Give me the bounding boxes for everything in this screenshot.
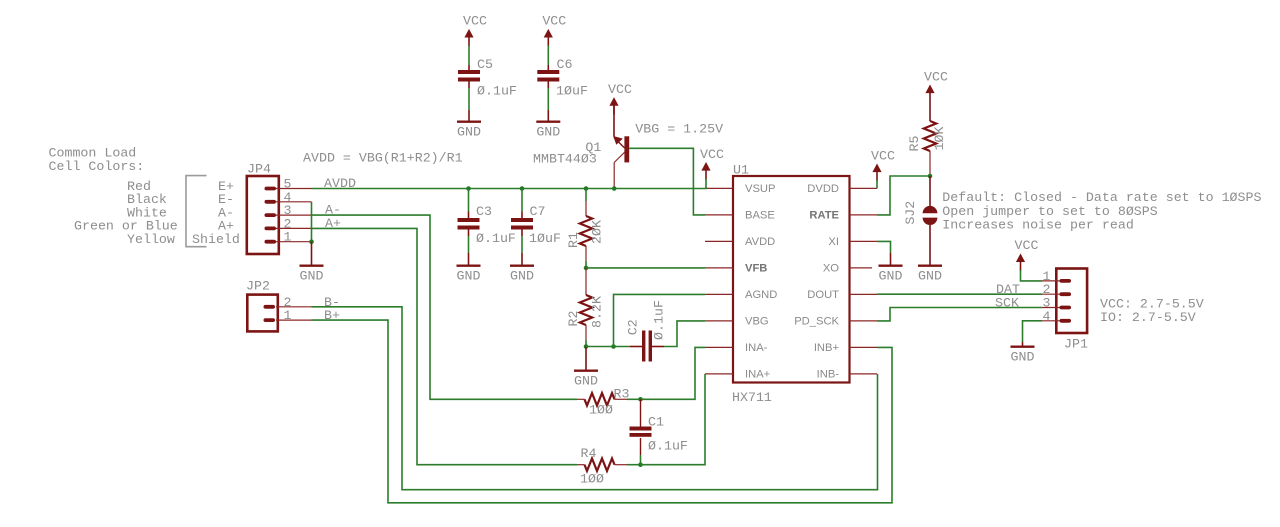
wire VCC to VSUP: [705, 179, 706, 189]
svg-text:R5: R5: [907, 136, 922, 152]
svg-text:PD_SCK: PD_SCK: [794, 316, 839, 328]
transistor Q1 MMBT4403 (PNP): [613, 105, 629, 187]
resistor R3: [577, 393, 641, 405]
power VCC above C5: [463, 14, 487, 47]
wire AVDD to C7: [521, 189, 523, 219]
svg-text:GND: GND: [1011, 350, 1035, 365]
svg-text:R2: R2: [566, 311, 581, 327]
svg-text:JP4: JP4: [247, 162, 271, 177]
svg-text:INA-: INA-: [745, 342, 768, 354]
capacitor C2: [630, 331, 664, 362]
svg-text:INB+: INB+: [814, 342, 839, 354]
svg-text:VBG: VBG: [745, 316, 769, 328]
svg-text:VCC: VCC: [871, 148, 895, 163]
svg-text:VCC: VCC: [463, 14, 487, 29]
capacitor C7: [511, 218, 533, 230]
wire R3 node to INA-: [641, 347, 706, 399]
svg-text:C5: C5: [477, 57, 493, 72]
wire AVDD net: [312, 188, 706, 190]
U1 right pin names: [794, 183, 839, 381]
label JP2: [246, 278, 270, 293]
bracket grouping load cell colors: [186, 176, 207, 247]
junction JP4 pin1 shield: [309, 239, 314, 244]
net label DAT: [996, 282, 1020, 297]
IC U1 HX711 box: [733, 176, 850, 383]
capacitor C5: [458, 70, 480, 82]
ground under SJ2: [918, 266, 942, 284]
svg-text:GND: GND: [300, 269, 324, 284]
svg-text:Ø.1uF: Ø.1uF: [477, 83, 517, 98]
ground under R2: [574, 347, 598, 389]
wire C2 to VBG: [664, 321, 705, 347]
svg-text:GND: GND: [879, 269, 903, 284]
U1 right pins: [850, 188, 878, 374]
ground under C7: [510, 266, 534, 284]
wire JP1 pin4 to GND: [1023, 321, 1043, 346]
wire C6 to GND: [547, 82, 549, 121]
note: VCC and IO voltage range: [1100, 296, 1204, 325]
power VCC above JP1 pin1: [1015, 238, 1039, 271]
svg-text:GND: GND: [574, 374, 598, 389]
svg-text:RATE: RATE: [809, 210, 839, 222]
net label AVDD: [324, 176, 356, 191]
wire B+ net to INB+: [312, 320, 893, 503]
svg-text:GND: GND: [536, 125, 560, 140]
svg-text:C6: C6: [557, 57, 573, 72]
value 0.1uF of C5: [477, 83, 517, 98]
wire E- to GND: [311, 202, 313, 242]
wire B- net to INB-: [312, 307, 878, 490]
svg-text:Shield: Shield: [192, 232, 240, 247]
JP1 pin numbers 1 2 3 4: [1043, 269, 1051, 324]
svg-text:VFB: VFB: [745, 263, 767, 275]
svg-text:VCC: VCC: [608, 82, 632, 97]
note: wire color list: [74, 179, 178, 247]
junction R2 bottom: [584, 344, 589, 349]
ground under C3: [457, 266, 481, 284]
wire AGND: [614, 294, 706, 346]
svg-text:BASE: BASE: [745, 210, 775, 222]
value 10uF of C6: [556, 83, 588, 98]
svg-text:2ØK: 2ØK: [589, 220, 604, 244]
svg-text:R3: R3: [614, 386, 630, 401]
svg-text:XO: XO: [823, 263, 839, 275]
wire VCC to C6: [547, 46, 549, 71]
svg-text:R4: R4: [581, 446, 597, 461]
svg-text:C3: C3: [476, 204, 492, 219]
junction AVDD/C3: [466, 186, 471, 191]
svg-text:DOUT: DOUT: [807, 289, 839, 301]
svg-text:MMBT44Ø3: MMBT44Ø3: [533, 152, 597, 167]
net label B-: [324, 295, 340, 310]
svg-text:AGND: AGND: [745, 289, 777, 301]
JP2 pin numbers 2 1: [284, 295, 292, 323]
net label A-: [325, 203, 341, 218]
power VCC above R5: [924, 69, 948, 102]
connector JP2: [247, 295, 311, 332]
svg-text:1ØuF: 1ØuF: [529, 231, 561, 246]
note: jumper default description: [942, 190, 1261, 232]
svg-text:IO: 2.7-5.5V: IO: 2.7-5.5V: [1100, 310, 1196, 325]
wire SCK (PD_SCK to JP1): [877, 308, 1042, 321]
ground under C6: [536, 122, 560, 140]
capacitor C6: [537, 70, 559, 82]
net label B+: [324, 308, 340, 323]
value 100 of R4: [580, 472, 604, 487]
svg-text:INB-: INB-: [817, 369, 840, 381]
svg-text:Ø.1uF: Ø.1uF: [652, 300, 667, 340]
ground under JP1: [1011, 347, 1035, 365]
resistor R2: [580, 268, 592, 347]
junction R5/RATE/SJ2: [928, 174, 933, 179]
svg-text:VCC: VCC: [924, 69, 948, 84]
svg-text:AVDD: AVDD: [324, 176, 356, 191]
label C6: [557, 57, 573, 72]
svg-text:VSUP: VSUP: [745, 183, 775, 195]
note: VBG = 1.25V: [635, 122, 723, 137]
svg-text:A+: A+: [325, 216, 341, 231]
wire DAT (DOUT to JP1): [877, 293, 1042, 295]
note: load cell signal names: [192, 179, 240, 247]
svg-text:GND: GND: [457, 269, 481, 284]
svg-text:AVDD: AVDD: [745, 236, 775, 248]
junction R3/C1/INA-: [638, 397, 643, 402]
solder jumper SJ2: [923, 176, 938, 265]
JP4 pin numbers 5 4 3 2 1: [284, 177, 292, 245]
svg-text:GND: GND: [918, 269, 942, 284]
svg-text:JP1: JP1: [1064, 336, 1088, 351]
ground under C5: [457, 122, 481, 140]
wire C5 to GND: [468, 82, 470, 121]
wire VCC to JP1 pin1: [1021, 270, 1043, 281]
svg-text:INA+: INA+: [745, 369, 770, 381]
svg-text:DVDD: DVDD: [807, 183, 839, 195]
svg-text:VBG = 1.25V: VBG = 1.25V: [635, 122, 723, 137]
junction AVDD/R1: [584, 186, 589, 191]
power VCC above U1 VSUP: [700, 147, 724, 180]
wire C3 to GND: [468, 230, 470, 265]
svg-text:U1: U1: [733, 163, 749, 178]
junction AVDD/C7: [520, 186, 525, 191]
junction AGND/C2: [611, 344, 616, 349]
svg-text:VCC: VCC: [700, 147, 724, 162]
value 100 of R3: [589, 402, 613, 417]
connector JP1: [1042, 269, 1087, 334]
label R3: [614, 386, 630, 401]
label C7: [530, 204, 546, 219]
connector JP4: [247, 176, 312, 254]
wire A+ net: [312, 228, 578, 464]
resistor R4: [577, 459, 641, 471]
U1 left pins: [705, 188, 733, 374]
value 0.1uF of C3: [476, 231, 516, 246]
wire R2 to C2: [586, 346, 630, 348]
label C1: [648, 414, 664, 429]
note: AVDD formula: [303, 151, 463, 166]
svg-text:HX711: HX711: [732, 390, 772, 405]
ground under XI: [879, 266, 903, 284]
capacitor C3: [458, 218, 480, 230]
note: Common Load Cell Colors heading: [49, 145, 145, 174]
svg-text:8.2K: 8.2K: [589, 296, 604, 328]
svg-text:GND: GND: [457, 125, 481, 140]
wire VCC to DVDD: [876, 180, 878, 188]
svg-text:1ØuF: 1ØuF: [556, 83, 588, 98]
svg-text:C2: C2: [625, 319, 640, 335]
resistor R1: [580, 189, 592, 268]
net label SCK: [995, 295, 1019, 310]
svg-text:SCK: SCK: [995, 295, 1019, 310]
svg-text:1ØK: 1ØK: [932, 127, 947, 151]
junction R4/C1/INA+: [638, 462, 643, 467]
svg-text:Yellow: Yellow: [127, 232, 175, 247]
label JP4: [247, 162, 271, 177]
U1 left pin names: [745, 183, 777, 381]
value 10uF of C7: [529, 231, 561, 246]
wire C7 to GND: [521, 230, 523, 265]
wire RATE to jumper: [877, 176, 930, 215]
svg-text:C7: C7: [530, 204, 546, 219]
wire Q1 base to U1 BASE: [629, 148, 705, 215]
svg-text:VCC: VCC: [1015, 238, 1039, 253]
svg-text:1: 1: [284, 230, 292, 245]
value HX711 of U1: [732, 390, 772, 405]
svg-text:4: 4: [1043, 309, 1051, 324]
svg-text:C1: C1: [648, 414, 664, 429]
label C5: [477, 57, 493, 72]
svg-text:VCC: VCC: [542, 14, 566, 29]
resistor R5: [924, 102, 936, 176]
svg-text:1: 1: [284, 308, 292, 323]
label JP1: [1064, 336, 1088, 351]
svg-text:XI: XI: [828, 236, 839, 248]
label R4: [581, 446, 597, 461]
junction R1/R2/VFB: [584, 266, 589, 271]
svg-text:GND: GND: [510, 269, 534, 284]
svg-text:Ø.1uF: Ø.1uF: [648, 439, 688, 454]
wire XI to GND: [877, 241, 891, 264]
junction Q1 collector on AVDD: [612, 186, 617, 191]
svg-text:Ø.1uF: Ø.1uF: [476, 231, 516, 246]
power VCC above Q1: [608, 82, 632, 115]
svg-text:1ØØ: 1ØØ: [580, 472, 604, 487]
svg-text:SJ2: SJ2: [903, 201, 918, 225]
net label A+: [325, 216, 341, 231]
wire VCC to C5: [468, 46, 470, 71]
power VCC above DVDD: [871, 148, 895, 181]
svg-text:R1: R1: [566, 232, 581, 248]
wire R4 node to INA+: [641, 374, 706, 465]
value MMBT4403 of Q1: [533, 152, 597, 167]
wire A- net: [312, 215, 578, 399]
label C3: [476, 204, 492, 219]
svg-text:JP2: JP2: [246, 278, 270, 293]
power VCC above C6: [542, 14, 566, 47]
svg-text:AVDD = VBG(R1+R2)/R1: AVDD = VBG(R1+R2)/R1: [303, 151, 463, 166]
svg-text:1ØØ: 1ØØ: [589, 402, 613, 417]
wire AVDD to C3: [468, 189, 470, 219]
label Q1: [585, 140, 601, 155]
ground under JP4: [300, 242, 324, 284]
label U1: [733, 163, 749, 178]
wire VFB: [586, 267, 705, 269]
capacitor C1: [630, 399, 652, 464]
svg-text:Cell Colors:: Cell Colors:: [49, 159, 145, 174]
value 0.1uF of C1: [648, 439, 688, 454]
svg-text:Increases noise per read: Increases noise per read: [942, 218, 1134, 233]
